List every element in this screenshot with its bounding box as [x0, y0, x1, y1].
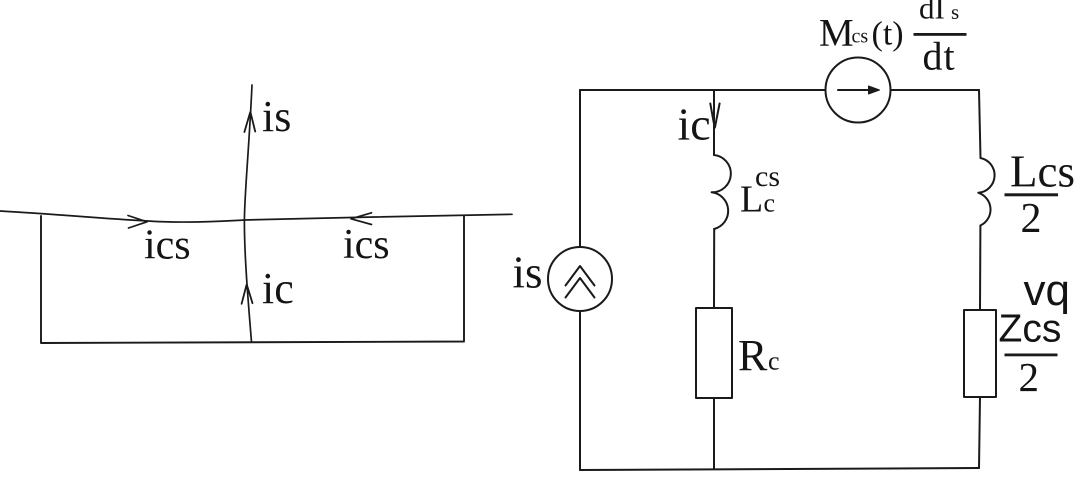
- wire: right vertical upper: [979, 90, 981, 158]
- inductor Lcs/2 (two bumps): [978, 158, 994, 226]
- svg-text:ic: ic: [678, 99, 711, 150]
- svg-text:ics: ics: [144, 223, 191, 269]
- wire: slab top surface line: [0, 211, 512, 222]
- arrow ic (up) on vertical current line: [242, 285, 253, 304]
- svg-text:R: R: [738, 331, 768, 380]
- fraction bar Zcs/2: [1005, 354, 1058, 357]
- svg-text:dI: dI: [919, 0, 945, 26]
- impedance Zcs/2 (box): [964, 310, 996, 397]
- wire: right vertical bottom: [979, 397, 980, 468]
- svg-text:Zcs: Zcs: [999, 308, 1062, 351]
- svg-text:c: c: [764, 189, 776, 218]
- wire: middle branch top: [713, 90, 715, 155]
- svg-text:Lcs: Lcs: [1010, 147, 1075, 197]
- svg-text:ic: ic: [262, 264, 294, 313]
- wire: top rail right segment: [891, 89, 980, 91]
- wire: top rail left segment: [580, 89, 826, 91]
- slab rectangle (left, bottom, right edges): [41, 216, 464, 343]
- wire: middle branch bottom: [713, 398, 715, 469]
- inductor Lc_cs (two bumps): [712, 155, 731, 229]
- wire: bottom rail: [580, 468, 979, 470]
- wire: middle branch between inductor and resistor: [713, 229, 715, 308]
- fraction bar Lcs/2: [1005, 193, 1059, 196]
- arrow ics right (left-pointing open head): [351, 213, 372, 225]
- svg-text:2: 2: [1019, 354, 1040, 400]
- fraction bar dIs/dt: [914, 33, 967, 36]
- current source is chevrons: [566, 266, 595, 298]
- svg-text:is: is: [262, 92, 291, 141]
- dependent source Mcs(t)dIs/dt (circle): [826, 58, 891, 123]
- svg-text:c: c: [768, 347, 780, 376]
- svg-text:(t): (t): [872, 16, 904, 53]
- svg-text:s: s: [951, 0, 959, 24]
- svg-text:is: is: [513, 248, 543, 298]
- arrow is (up) on vertical current line: [244, 112, 255, 132]
- wire: right vertical between inductor and impedance: [979, 226, 981, 311]
- svg-text:cs: cs: [852, 26, 869, 48]
- current source is (circle): [548, 247, 612, 311]
- svg-text:2: 2: [1021, 196, 1042, 242]
- dependent source arrow: [838, 89, 871, 91]
- resistor Rc (box): [696, 308, 732, 398]
- svg-text:M: M: [819, 12, 854, 55]
- wire: vertical current line is/ic through slab: [244, 85, 252, 342]
- arrow ics left (right-pointing open head): [128, 216, 147, 229]
- wire: left vertical upper: [579, 90, 581, 247]
- svg-text:dt: dt: [923, 34, 956, 79]
- arrow ic (down) on middle branch: [710, 104, 719, 128]
- wire: left vertical lower: [579, 311, 581, 470]
- svg-text:ics: ics: [343, 222, 390, 268]
